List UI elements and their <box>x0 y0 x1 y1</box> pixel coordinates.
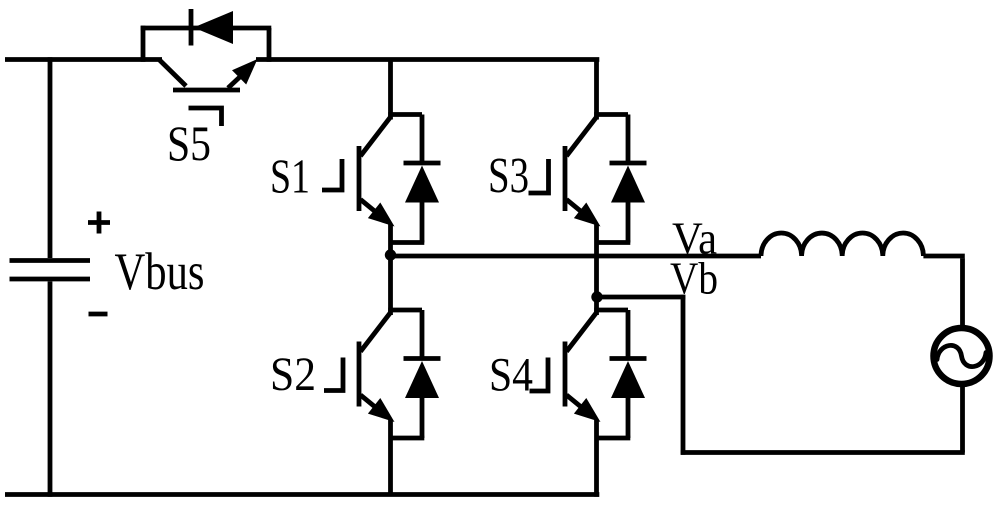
IGBT S4 emitter with arrow <box>567 395 587 411</box>
diode of S4: top lead <box>626 310 631 359</box>
gate lead of S5 <box>189 108 222 126</box>
diode of S1: bottom lead <box>420 201 425 243</box>
diode of S2: bottom lead <box>420 396 425 438</box>
wire: AC source bottom lead <box>960 384 965 453</box>
wire: emitter leg of S4 <box>594 420 599 497</box>
wire: top corner to diode of S2 <box>388 308 422 313</box>
diode of S3: cathode bar <box>610 161 647 166</box>
wire: collector riser of S3 <box>594 60 599 120</box>
IGBT S3 collector diagonal <box>567 117 597 156</box>
IGBT S2 emitter with arrow <box>361 395 381 411</box>
svg-text:Vbus: Vbus <box>115 243 205 301</box>
wire: diode bottom corner of S1 <box>391 240 425 245</box>
wire: bypass diode loop left riser <box>141 26 146 62</box>
IGBT S1 bar <box>357 146 362 211</box>
gate lead of S4 <box>530 358 549 392</box>
wire: collector riser of S1 <box>388 60 393 120</box>
wire: Va line from node A to inductor <box>391 254 762 259</box>
plus sign <box>88 220 110 225</box>
IGBT S5 emitter with arrow <box>228 74 243 88</box>
minus sign <box>89 312 108 317</box>
wire: load loop bottom <box>681 450 965 455</box>
svg-text:S4: S4 <box>489 349 533 402</box>
wire: AC source top lead <box>960 258 965 328</box>
wire: diode bottom corner of S2 <box>391 436 425 441</box>
diode of S3: bottom lead <box>626 201 631 243</box>
node B junction dot <box>591 291 602 302</box>
bypass diode D5 cathode bar <box>189 9 194 46</box>
IGBT S3 bar <box>563 146 568 211</box>
wire: DC bus left leg lower <box>48 282 53 497</box>
diode of S2: cathode bar <box>404 356 441 361</box>
diode of S3: triangle <box>611 166 645 203</box>
diode of S1: cathode bar <box>404 161 441 166</box>
gate lead of S3 <box>529 159 549 193</box>
IGBT S5 collector diagonal <box>160 60 187 86</box>
IGBT S3 emitter with arrow <box>567 200 587 216</box>
diode of S3: top lead <box>626 115 631 164</box>
node A junction dot <box>385 249 396 260</box>
AC source sine symbol <box>937 345 986 366</box>
capacitor Vbus bottom plate <box>10 277 91 282</box>
svg-text:S2: S2 <box>270 348 316 401</box>
bypass diode D5 triangle <box>194 11 234 44</box>
wire: top rail right segment <box>256 57 599 62</box>
IGBT S4 bar <box>563 342 568 407</box>
svg-text:S1: S1 <box>270 149 310 204</box>
IGBT S5 bar <box>173 88 240 93</box>
diode of S4: cathode bar <box>610 356 647 361</box>
IGBT S1 collector diagonal <box>361 117 391 156</box>
AC source circle <box>934 328 990 384</box>
wire: Vb right riser down <box>681 295 686 455</box>
IGBT S1 emitter with arrow <box>361 200 381 216</box>
diode of S1: top lead <box>420 115 425 164</box>
wire: top rail left segment <box>5 57 162 62</box>
IGBT S2 bar <box>357 342 362 407</box>
svg-text:S5: S5 <box>167 115 211 171</box>
IGBT S4 collector diagonal <box>567 313 597 352</box>
wire: emitter leg of S1 <box>388 224 393 256</box>
IGBT S2 collector diagonal <box>361 313 391 352</box>
gate lead of S1 <box>322 159 342 190</box>
diode of S4: triangle <box>611 361 645 398</box>
wire: collector riser of S2 <box>388 255 393 315</box>
wire: emitter leg of S3 <box>594 224 599 297</box>
wire: bypass diode loop top <box>141 26 272 31</box>
wire: diode bottom corner of S3 <box>597 240 631 245</box>
svg-text:S3: S3 <box>488 149 529 205</box>
diode of S2: triangle <box>405 361 439 398</box>
diode of S4: bottom lead <box>626 396 631 438</box>
wire: bottom rail <box>5 492 599 497</box>
diode of S2: top lead <box>420 310 425 359</box>
wire: collector riser of S4 <box>594 297 599 315</box>
wire: top corner to diode of S3 <box>594 112 628 117</box>
wire: DC bus left leg upper <box>48 57 53 258</box>
wire: inductor to corner <box>923 254 964 259</box>
diode of S1: triangle <box>405 166 439 203</box>
wire: diode bottom corner of S4 <box>597 436 631 441</box>
wire: emitter leg of S2 <box>388 420 393 495</box>
wire: top corner to diode of S1 <box>388 112 422 117</box>
wire: bypass diode loop right riser <box>267 28 272 62</box>
wire: top corner to diode of S4 <box>594 308 628 313</box>
capacitor Vbus top plate <box>10 258 91 263</box>
inductor L <box>761 233 923 256</box>
gate lead of S2 <box>324 358 343 391</box>
wire: Vb line from node B <box>597 295 685 300</box>
